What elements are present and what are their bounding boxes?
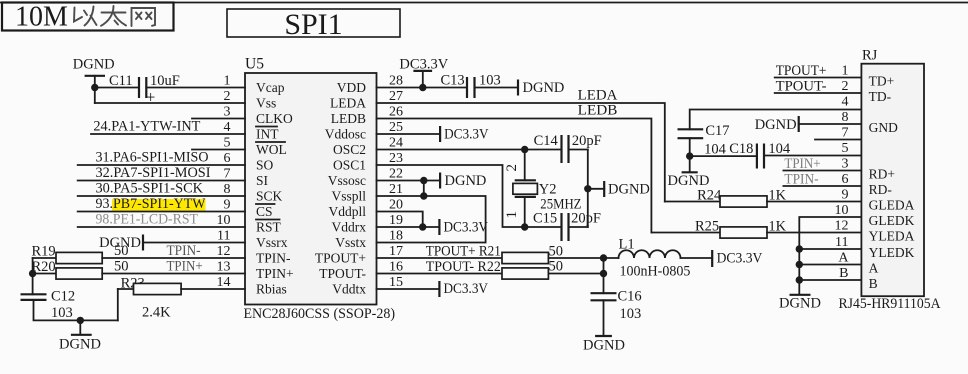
wire RJ pin4 to C17 [690,110,861,130]
svg-text:7: 7 [224,167,231,182]
svg-text:DC3.3V: DC3.3V [717,251,763,267]
ground flag DGND at crystal [588,181,650,197]
svg-text:DGND: DGND [779,296,821,312]
node rail junction [584,185,591,192]
svg-text:Rbias: Rbias [256,282,287,297]
svg-text:12: 12 [835,219,849,234]
svg-text:GLEDK: GLEDK [869,213,915,228]
svg-text:24.PA1-YTW-INT: 24.PA1-YTW-INT [93,119,200,135]
resistor R20 50 [32,258,246,279]
svg-text:17: 17 [389,244,403,259]
svg-text:2: 2 [224,89,231,104]
svg-text:4: 4 [224,120,231,135]
svg-text:50: 50 [114,243,129,259]
svg-text:Vsstx: Vsstx [335,235,366,250]
svg-text:19: 19 [389,213,403,228]
resistor R21 50 [377,243,604,263]
svg-text:Vddrx: Vddrx [332,220,367,235]
overline RST (pin 10 active low) [256,219,280,221]
capacitor C12 103 [21,289,76,322]
ground DGND below C17 [668,156,710,189]
svg-text:TD-: TD- [869,89,892,104]
svg-text:DGND: DGND [608,181,650,197]
svg-text:LEDA: LEDA [330,96,366,111]
svg-text:27: 27 [389,89,403,104]
svg-text:DGND: DGND [445,173,487,189]
ground flag DGND RJ pin8 [755,116,861,133]
svg-text:10: 10 [217,213,231,228]
svg-text:TPIN+: TPIN+ [167,258,203,274]
svg-text:22: 22 [389,167,403,182]
ground flag DGND pin11 Vssrx [99,235,245,252]
net label TPIN+ at RJ pin3 [783,156,861,172]
IC U5 ENC28J60CSS [217,56,404,323]
wire pin10 RST [78,226,245,228]
svg-text:21: 21 [389,182,403,197]
svg-text:Vssrx: Vssrx [256,235,288,250]
wire pin2 Vss to DGND [95,102,245,104]
wire R19/R20 common rail [32,258,34,294]
wire C12 to ground rail [34,300,118,321]
wire RJ pin11 [799,248,861,250]
svg-text:10: 10 [835,203,849,218]
svg-text:DGND: DGND [523,80,565,96]
svg-text:4: 4 [842,95,849,110]
ground flag DGND at C13 [518,80,564,97]
svg-text:C12: C12 [51,289,75,305]
svg-text:1: 1 [504,211,520,219]
overline INT (pin 4 active low) [256,126,277,128]
power flag DC3.3V at L1 [712,250,763,267]
svg-text:ENC28J60CSS (SSOP-28): ENC28J60CSS (SSOP-28) [244,306,396,322]
svg-text:Y2: Y2 [539,182,557,198]
svg-text:Vssosc: Vssosc [328,173,366,188]
svg-text:C18: C18 [729,141,753,157]
resistor R22 50 [377,258,604,279]
svg-text:YLEDA: YLEDA [869,229,915,244]
svg-text:OSC2: OSC2 [333,142,366,157]
svg-text:OSC1: OSC1 [333,158,366,173]
svg-text:TPOUT-: TPOUT- [319,266,366,281]
capacitor C16 103 [591,289,642,323]
wire pin23 OSC1 [377,165,562,227]
svg-text:14: 14 [217,275,231,290]
svg-text:TPOUT+: TPOUT+ [315,251,366,266]
svg-text:20: 20 [389,198,403,213]
overline CS (pin 9 active low) [256,203,275,205]
svg-text:INT: INT [256,127,279,142]
capacitor C13 103 [441,73,501,99]
net label TPOUT- at RJ pin2 [775,78,861,94]
net label 93.PB7-SPI1-YTW highlighted [96,196,206,212]
svg-text:WOL: WOL [256,142,287,157]
svg-text:24: 24 [389,136,403,151]
wire TPOUT rail to C16 [603,258,605,293]
svg-text:TD+: TD+ [869,74,895,89]
node C17 junction [686,152,693,159]
wire pin24 OSC2 [377,149,562,151]
svg-text:100nH-0805: 100nH-0805 [620,263,691,279]
svg-text:103: 103 [620,306,642,322]
svg-text:C14: C14 [534,133,559,149]
node VDD junction [419,84,426,91]
svg-text:11: 11 [835,235,848,250]
svg-text:1: 1 [842,64,849,79]
svg-text:TPIN+: TPIN+ [256,266,294,281]
svg-text:DC3.3V: DC3.3V [444,220,489,236]
ground DGND below C12 [59,320,101,352]
svg-text:10M: 10M [15,2,68,33]
capacitor C18 104 [690,141,861,169]
resistor R19 50 [32,243,246,264]
svg-text:A: A [869,261,879,276]
capacitor C11 10uF [109,73,180,107]
svg-text:SPI1: SPI1 [284,8,342,41]
node R20 junction [29,270,36,277]
svg-text:A: A [838,251,849,266]
wire RJ pin7 stub [815,139,861,141]
sheet top border [0,2,968,4]
net LEDB wire [377,103,652,233]
svg-text:YLEDK: YLEDK [869,245,915,260]
svg-text:8: 8 [842,110,849,125]
svg-text:3: 3 [842,157,849,172]
capacitor C15 20pF [533,211,601,242]
svg-text:TPOUT+ R21: TPOUT+ R21 [426,243,501,259]
svg-text:RJ: RJ [862,48,878,64]
svg-text:Vddtx: Vddtx [332,282,366,297]
svg-text:CLKO: CLKO [256,111,293,126]
svg-text:LEDB: LEDB [578,103,618,119]
svg-text:RJ45-HR911105A: RJ45-HR911105A [839,296,941,312]
wire C11 to pin 1 [146,87,245,89]
header box SPI1 [227,8,400,41]
wire pin8 SCK [78,195,245,197]
svg-text:C13: C13 [441,73,465,89]
svg-text:50: 50 [549,258,564,274]
svg-text:GLEDA: GLEDA [869,198,915,213]
power flag DC3.3V pin15 Vddtx [377,281,489,297]
resistor R24 1K [665,187,861,207]
wire pin3 CLKO stub [192,118,245,120]
resistor R25 1K [651,218,861,238]
ground DGND below C16 [583,300,625,353]
svg-text:8: 8 [224,182,231,197]
wire pin28 VDD [377,87,468,89]
svg-text:20pF: 20pF [571,211,601,227]
header box 10M Ethernet [2,2,174,33]
wire C14 to rail [569,149,588,151]
svg-text:DC3.3V: DC3.3V [444,127,489,143]
svg-text:R25: R25 [695,218,719,234]
svg-text:31.PA6-SPI1-MISO: 31.PA6-SPI1-MISO [96,150,209,166]
svg-text:SO: SO [256,158,274,173]
power flag DC3.3V pins 20/19 Vddpll Vddrx [377,212,489,236]
node pin A junction [796,261,803,268]
svg-text:2: 2 [842,79,849,94]
wire pin21 Vsspll tie to pin18 Vsstx [377,196,486,243]
svg-text:20pF: 20pF [572,133,602,149]
svg-text:LEDB: LEDB [331,111,366,126]
svg-text:GND: GND [869,120,898,135]
ground DGND below RJ rail [779,295,821,312]
wire C15 to rail [569,226,588,228]
svg-text:5: 5 [224,136,231,151]
svg-text:TPOUT+: TPOUT+ [776,63,827,79]
wire pin9 CS [78,211,245,213]
svg-text:104: 104 [704,142,727,158]
svg-text:RST: RST [256,220,282,235]
ground DGND top-left [73,57,115,104]
svg-text:2.4K: 2.4K [142,305,171,321]
node pin B junction [796,276,803,283]
svg-text:12: 12 [217,244,231,259]
svg-text:103: 103 [51,305,73,321]
svg-text:28: 28 [389,74,403,89]
svg-text:15: 15 [389,275,403,290]
svg-text:Vcap: Vcap [256,80,285,95]
svg-text:B: B [869,276,878,291]
svg-text:11: 11 [217,229,230,244]
svg-text:16: 16 [389,260,403,275]
svg-text:6: 6 [842,172,849,187]
svg-text:DGND: DGND [73,57,115,73]
wire RJ pin A [799,264,861,266]
svg-text:13: 13 [217,260,231,275]
svg-text:C11: C11 [109,73,133,89]
wire RJ pin B [799,279,861,281]
svg-text:DGND: DGND [59,337,101,353]
svg-text:26: 26 [389,105,403,120]
node DGND junction [77,317,84,324]
svg-text:50: 50 [114,258,129,274]
svg-text:3: 3 [224,105,231,120]
wire pin1 Vcap [95,87,139,89]
svg-text:TPOUT- R22: TPOUT- R22 [426,259,501,275]
node TPOUT- junction [600,270,607,277]
capacitor C17 104 [678,123,730,158]
svg-text:U5: U5 [245,56,264,73]
node TPOUT+ junction [600,254,607,261]
svg-text:25: 25 [389,120,403,135]
wire RJ pin10 to ground rail [799,217,861,294]
ground flag DGND pins 22/21 Vssosc Vsspll [377,173,487,200]
svg-text:Vss: Vss [256,96,276,111]
crystal Y2 25MHZ [504,150,582,228]
svg-text:DGND: DGND [755,117,797,133]
svg-text:93.PB7-SPI1-YTW: 93.PB7-SPI1-YTW [96,196,206,212]
svg-text:50: 50 [549,243,564,259]
node OSC2 junction [521,146,528,153]
power DC3.3V top [399,57,448,88]
svg-text:R24: R24 [697,187,722,203]
node OSC1/C15 junction [521,223,528,230]
svg-text:18: 18 [389,229,403,244]
svg-text:1: 1 [224,74,231,89]
svg-text:DGND: DGND [583,338,625,354]
net LEDA wire [377,87,665,201]
resistor R23 2.4K [118,276,245,321]
overline WOL (pin 5 active low) [256,141,285,143]
capacitor C14 20pF [534,133,602,163]
svg-text:TPIN-: TPIN- [167,243,201,259]
svg-text:VDD: VDD [337,80,366,95]
wire pin6 SO [78,164,245,166]
svg-text:Vddosc: Vddosc [325,127,366,142]
wire C13 to ground flag [475,87,519,89]
net label TPOUT+ at RJ pin1 [775,63,861,79]
svg-text:5: 5 [842,141,849,156]
wire pin7 SI [78,180,245,182]
wire crystal rail [587,150,589,228]
svg-text:30.PA5-SPI1-SCK: 30.PA5-SPI1-SCK [96,181,204,197]
wire pin5 WOL stub [192,149,245,151]
svg-text:RD+: RD+ [869,167,895,182]
svg-text:LEDA: LEDA [578,87,618,103]
svg-text:SI: SI [256,173,269,188]
svg-text:C16: C16 [618,289,642,305]
svg-text:98.PE1-LCD-RST: 98.PE1-LCD-RST [96,212,199,228]
svg-text:RD-: RD- [869,182,893,197]
svg-text:C17: C17 [705,123,729,139]
svg-text:9: 9 [224,198,231,213]
net label TPIN- at RJ pin6 [783,172,861,188]
svg-text:32.PA7-SPI1-MOSI: 32.PA7-SPI1-MOSI [96,165,211,181]
node pin11 junction [796,245,803,252]
svg-text:DC3.3V: DC3.3V [444,281,489,297]
svg-text:SCK: SCK [256,189,283,204]
svg-text:TPOUT-: TPOUT- [776,78,827,94]
svg-text:6: 6 [224,151,231,166]
wire pin4 INT [91,133,245,135]
svg-text:7: 7 [842,126,849,141]
svg-text:2: 2 [504,164,520,172]
svg-text:Vddpll: Vddpll [328,204,366,219]
svg-text:CS: CS [256,204,273,219]
svg-text:Vsspll: Vsspll [331,189,366,204]
svg-text:23: 23 [389,151,403,166]
svg-text:B: B [839,266,848,281]
connector RJ RJ45-HR911105A [835,48,941,313]
svg-text:C15: C15 [533,211,557,227]
inductor L1 100nH-0805 [604,236,713,279]
power flag DC3.3V pin25 Vddosc [377,126,490,143]
svg-text:103: 103 [479,73,501,89]
svg-text:9: 9 [842,188,849,203]
svg-text:TPIN-: TPIN- [256,251,291,266]
node Vcap junction [91,84,98,91]
